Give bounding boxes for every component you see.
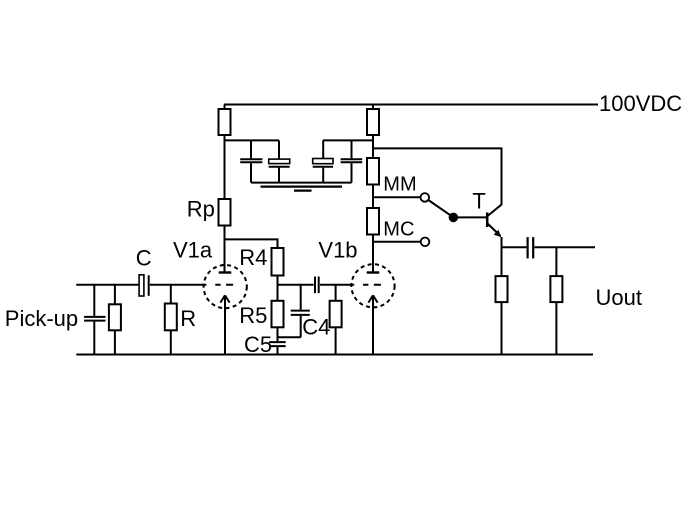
wire pickup branch lower <box>93 322 95 355</box>
capacitor interstage coupling plates <box>315 277 319 294</box>
tube V1a envelope <box>204 265 247 308</box>
capacitor A plates <box>240 159 262 162</box>
wire switch arm diagonal <box>428 200 451 216</box>
wire emitter resistor to ground <box>501 302 503 354</box>
wire left decoupling branch <box>225 139 280 141</box>
wire anode junction to coupling cap <box>278 284 314 286</box>
transistor T emitter arrowhead <box>494 230 502 238</box>
wire 100VDC top rail <box>224 104 598 106</box>
resistor emitter <box>496 276 508 302</box>
resistor MC dropper <box>367 208 379 235</box>
ground <box>261 187 343 191</box>
tube V1a grid dashes <box>215 284 233 286</box>
wire bottom ground rail <box>76 354 593 356</box>
svg-text:MM: MM <box>383 174 416 196</box>
transistor T emitter stroke <box>488 224 501 237</box>
resistor MM dropper <box>367 158 379 185</box>
svg-text:C4: C4 <box>302 315 330 340</box>
transistor T base bar <box>486 213 489 228</box>
wire output line left of cap <box>502 246 527 248</box>
switch contact MC <box>421 238 430 247</box>
svg-text:T: T <box>472 188 485 213</box>
wire emitter vertical <box>501 237 503 276</box>
wire output line right of cap <box>534 246 595 248</box>
wire C5 to ground rail <box>277 347 279 355</box>
resistor R4 <box>272 248 284 276</box>
resistor Rp <box>219 199 231 226</box>
capacitor bank lead D upper <box>351 140 353 158</box>
wire R5 bottom to C5 <box>277 327 279 341</box>
capacitor C4 plates <box>291 311 310 315</box>
wire V1a cathode to ground <box>224 297 226 355</box>
resistor output load <box>550 276 562 302</box>
resistor V1b grid <box>330 301 342 328</box>
svg-text:V1a: V1a <box>173 237 213 262</box>
tube V1b cathode arrow <box>368 295 377 302</box>
capacitor D plates <box>341 159 363 162</box>
svg-text:MC: MC <box>383 218 414 240</box>
transistor T collector stroke <box>488 204 502 216</box>
wire MC tap <box>373 241 420 243</box>
svg-text:R4: R4 <box>239 245 267 270</box>
svg-text:Pick-up: Pick-up <box>5 306 78 331</box>
capacitor bank lead C lower <box>322 168 324 183</box>
wire coupling cap to V1b grid <box>320 284 354 286</box>
svg-text:100VDC: 100VDC <box>599 91 682 116</box>
svg-text:C5: C5 <box>244 332 272 357</box>
capacitor bank lead A lower <box>250 163 252 182</box>
capacitor bank lead B lower <box>278 168 280 183</box>
wire collector feed <box>373 148 502 205</box>
capacitor bank lead B upper <box>278 140 280 159</box>
wire input top <box>76 284 139 286</box>
svg-text:V1b: V1b <box>318 237 357 262</box>
svg-text:Rp: Rp <box>187 196 215 221</box>
capacitor B plates (polarized) <box>269 159 290 167</box>
resistor input load <box>109 304 121 330</box>
wire right decoupling branch <box>323 139 373 141</box>
wire V1b grid resistor branch <box>335 285 337 355</box>
wire left main vertical (supply to V1a anode) <box>224 105 226 273</box>
switch contact MM <box>421 193 430 202</box>
capacitor bank lead D lower <box>351 163 353 182</box>
resistor R grid leak <box>165 304 177 331</box>
svg-text:C: C <box>136 245 152 270</box>
tube V1a anode plate <box>219 271 232 273</box>
capacitor C plates (input coupling, polarized) <box>139 275 149 296</box>
wire C4 lower lead <box>300 316 302 337</box>
svg-text:R: R <box>180 306 196 331</box>
wire decoupling bottom bus <box>251 182 352 184</box>
capacitor C5 plates <box>269 342 286 346</box>
tube V1b anode plate <box>367 271 380 273</box>
tube V1b grid dashes <box>363 284 381 286</box>
tube V1b envelope <box>351 264 394 307</box>
wire R grid-leak branch <box>170 285 172 355</box>
wire switch pole to base <box>453 216 486 218</box>
capacitor pickup plates <box>84 317 105 321</box>
wire C4 upper lead <box>300 285 302 310</box>
wire pickup branch upper <box>93 285 95 316</box>
wire V1b cathode to ground <box>372 297 374 355</box>
wire R4 bottom to R5 top <box>277 276 279 301</box>
wire input cap C to V1a grid <box>150 284 207 286</box>
svg-text:R5: R5 <box>239 303 267 328</box>
wire MM tap <box>373 196 420 198</box>
switch pole junction dot <box>449 213 459 223</box>
capacitor C plates (polarized) <box>313 159 333 167</box>
capacitor output coupling plates <box>528 237 534 258</box>
wire right main vertical (supply to V1b anode) <box>372 105 374 273</box>
wire input load resistor branch <box>114 285 116 355</box>
resistor top-left supply <box>219 109 231 135</box>
wire output load branch <box>555 247 557 354</box>
wire Rp junction to R4 top <box>225 239 278 248</box>
capacitor bank lead C upper <box>322 140 324 158</box>
capacitor bank lead A upper <box>250 140 252 158</box>
resistor R5 <box>272 301 284 328</box>
wire R5/C4 bottom link <box>278 336 301 338</box>
svg-text:Uout: Uout <box>596 285 642 310</box>
resistor top-right supply <box>367 109 379 135</box>
tube V1a cathode arrow <box>220 295 229 302</box>
